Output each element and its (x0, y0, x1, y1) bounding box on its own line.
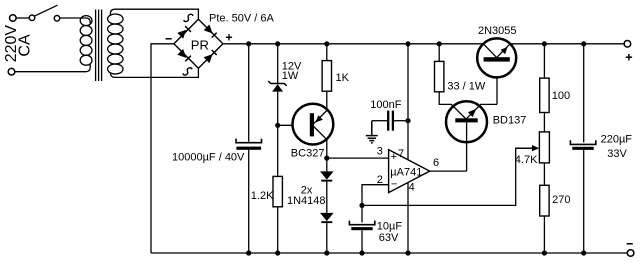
label minus (bridge) (166, 38, 172, 40)
bottom rail (151, 252, 627, 254)
node bottom rail 1.2K (275, 250, 280, 255)
svg-text:CA: CA (16, 34, 33, 57)
node top rail zener (275, 41, 280, 46)
svg-text:3: 3 (377, 145, 383, 157)
svg-text:100nF: 100nF (370, 99, 401, 111)
wire collector down to diodes (326, 158, 328, 171)
svg-text:10µF: 10µF (377, 220, 403, 232)
transformer T1 primary winding (80, 16, 92, 66)
terminal J2 220V neutral input (8, 68, 15, 75)
svg-text:1.2K: 1.2K (251, 190, 274, 202)
op-amp U1 uA741 (389, 150, 430, 193)
svg-text:7: 7 (398, 148, 404, 160)
wire op-amp pin7 to rail (407, 44, 409, 164)
node top rail pin7 (405, 41, 410, 46)
bridge rectifier PR outline (174, 19, 223, 68)
ground symbol (366, 121, 378, 143)
svg-text:BD137: BD137 (493, 115, 527, 127)
transformer core (96, 10, 102, 82)
node top rail 1K (324, 41, 329, 46)
wire secondary top to bridge AC1 (110, 9, 198, 19)
transistor Q1 2N3055 (477, 38, 516, 77)
wire feedback to pot wiper (362, 148, 538, 205)
svg-text:1N4148: 1N4148 (287, 195, 326, 207)
label plus output (626, 54, 632, 60)
label uA741 and pins (377, 145, 439, 193)
svg-text:4: 4 (409, 181, 415, 193)
svg-text:10000µF / 40V: 10000µF / 40V (172, 152, 245, 164)
svg-text:33 / 1W: 33 / 1W (447, 80, 486, 92)
node bottom rail 220uF (581, 250, 586, 255)
svg-text:6: 6 (433, 157, 439, 169)
wire pin2 (362, 185, 389, 206)
diode D4 1N4148 (320, 213, 334, 253)
resistor R5 270 (540, 185, 549, 253)
node top rail 33ohm (437, 41, 442, 46)
resistor R4 100 (540, 44, 549, 113)
wire J1 to switch (16, 17, 29, 19)
transistor Q3 BD137 (446, 62, 497, 172)
wire collector to op-amp pin3 (327, 157, 389, 159)
svg-text:µA741: µA741 (390, 166, 422, 178)
terminal J4 output minus (627, 250, 634, 257)
potentiometer P1 4.7K (516, 113, 550, 186)
svg-text:63V: 63V (379, 232, 399, 244)
switch S1 (29, 5, 60, 21)
svg-text:PR: PR (191, 37, 209, 52)
terminal J1 220V line input (10, 15, 17, 22)
resistor R3 33/1W (435, 44, 452, 105)
node bottom rail C1 (246, 250, 251, 255)
wire switch to primary (60, 18, 90, 24)
node top rail 220uF (581, 41, 586, 46)
transformer T1 secondary winding (108, 14, 123, 74)
node bottom rail 10uF (359, 250, 364, 255)
label minus output (627, 243, 633, 245)
bridge diode arrow bottom-left (177, 49, 191, 62)
resistor R2 1.2K (273, 176, 282, 253)
AC tilde bottom (183, 68, 192, 75)
resistor R1 1K (322, 44, 331, 91)
transistor Q2 BC327 (293, 91, 334, 158)
svg-text:33V: 33V (607, 148, 627, 160)
svg-text:+: + (391, 151, 397, 163)
svg-text:220µF: 220µF (601, 133, 633, 145)
svg-text:1W: 1W (282, 70, 299, 82)
wire pin6 output (430, 170, 467, 172)
svg-text:Pte. 50V / 6A: Pte. 50V / 6A (209, 13, 274, 25)
capacitor C1 10000uF/40V (236, 44, 262, 253)
node bottom rail 270 (542, 250, 547, 255)
wire secondary bottom to bridge AC2 (110, 68, 198, 77)
wire bridge minus to bottom rail (151, 44, 174, 253)
svg-text:−: − (391, 179, 397, 191)
svg-text:2N3055: 2N3055 (478, 25, 517, 37)
wire op-amp pin4 to bottom rail (407, 178, 409, 253)
capacitor C3 10uF/63V (349, 205, 374, 253)
zener diode D5 12V 1W (268, 44, 286, 177)
diode D3 1N4148 (320, 171, 334, 213)
capacitor C2 100nF (372, 111, 408, 131)
node bottom rail pin4 (405, 250, 410, 255)
bridge diode arrow top-right (204, 25, 217, 38)
svg-text:2: 2 (377, 174, 383, 186)
capacitor C4 220uF/33V (570, 44, 595, 253)
node pin2 feedback junction (359, 203, 364, 208)
bridge diode arrow top-left (177, 26, 191, 39)
svg-text:1K: 1K (336, 72, 350, 84)
node zener-base junction (275, 123, 280, 128)
node bottom rail diodes (324, 250, 329, 255)
label plus (bridge) (226, 34, 232, 40)
node top rail C1 (246, 41, 251, 46)
svg-text:4.7K: 4.7K (515, 154, 538, 166)
svg-text:BC327: BC327 (291, 147, 325, 159)
wire J2 to primary bottom (15, 64, 90, 72)
node pin7/100nF (405, 118, 410, 123)
node BC327 collector (324, 156, 329, 161)
svg-text:270: 270 (552, 194, 570, 206)
AC tilde top (184, 14, 193, 21)
node top rail 100ohm (542, 41, 547, 46)
wire base of BC327 (278, 124, 311, 126)
terminal J3 output plus (624, 41, 631, 48)
bridge diode arrow bottom-right (204, 50, 217, 63)
top rail (bridge + output) (223, 43, 624, 45)
svg-text:100: 100 (552, 90, 570, 102)
